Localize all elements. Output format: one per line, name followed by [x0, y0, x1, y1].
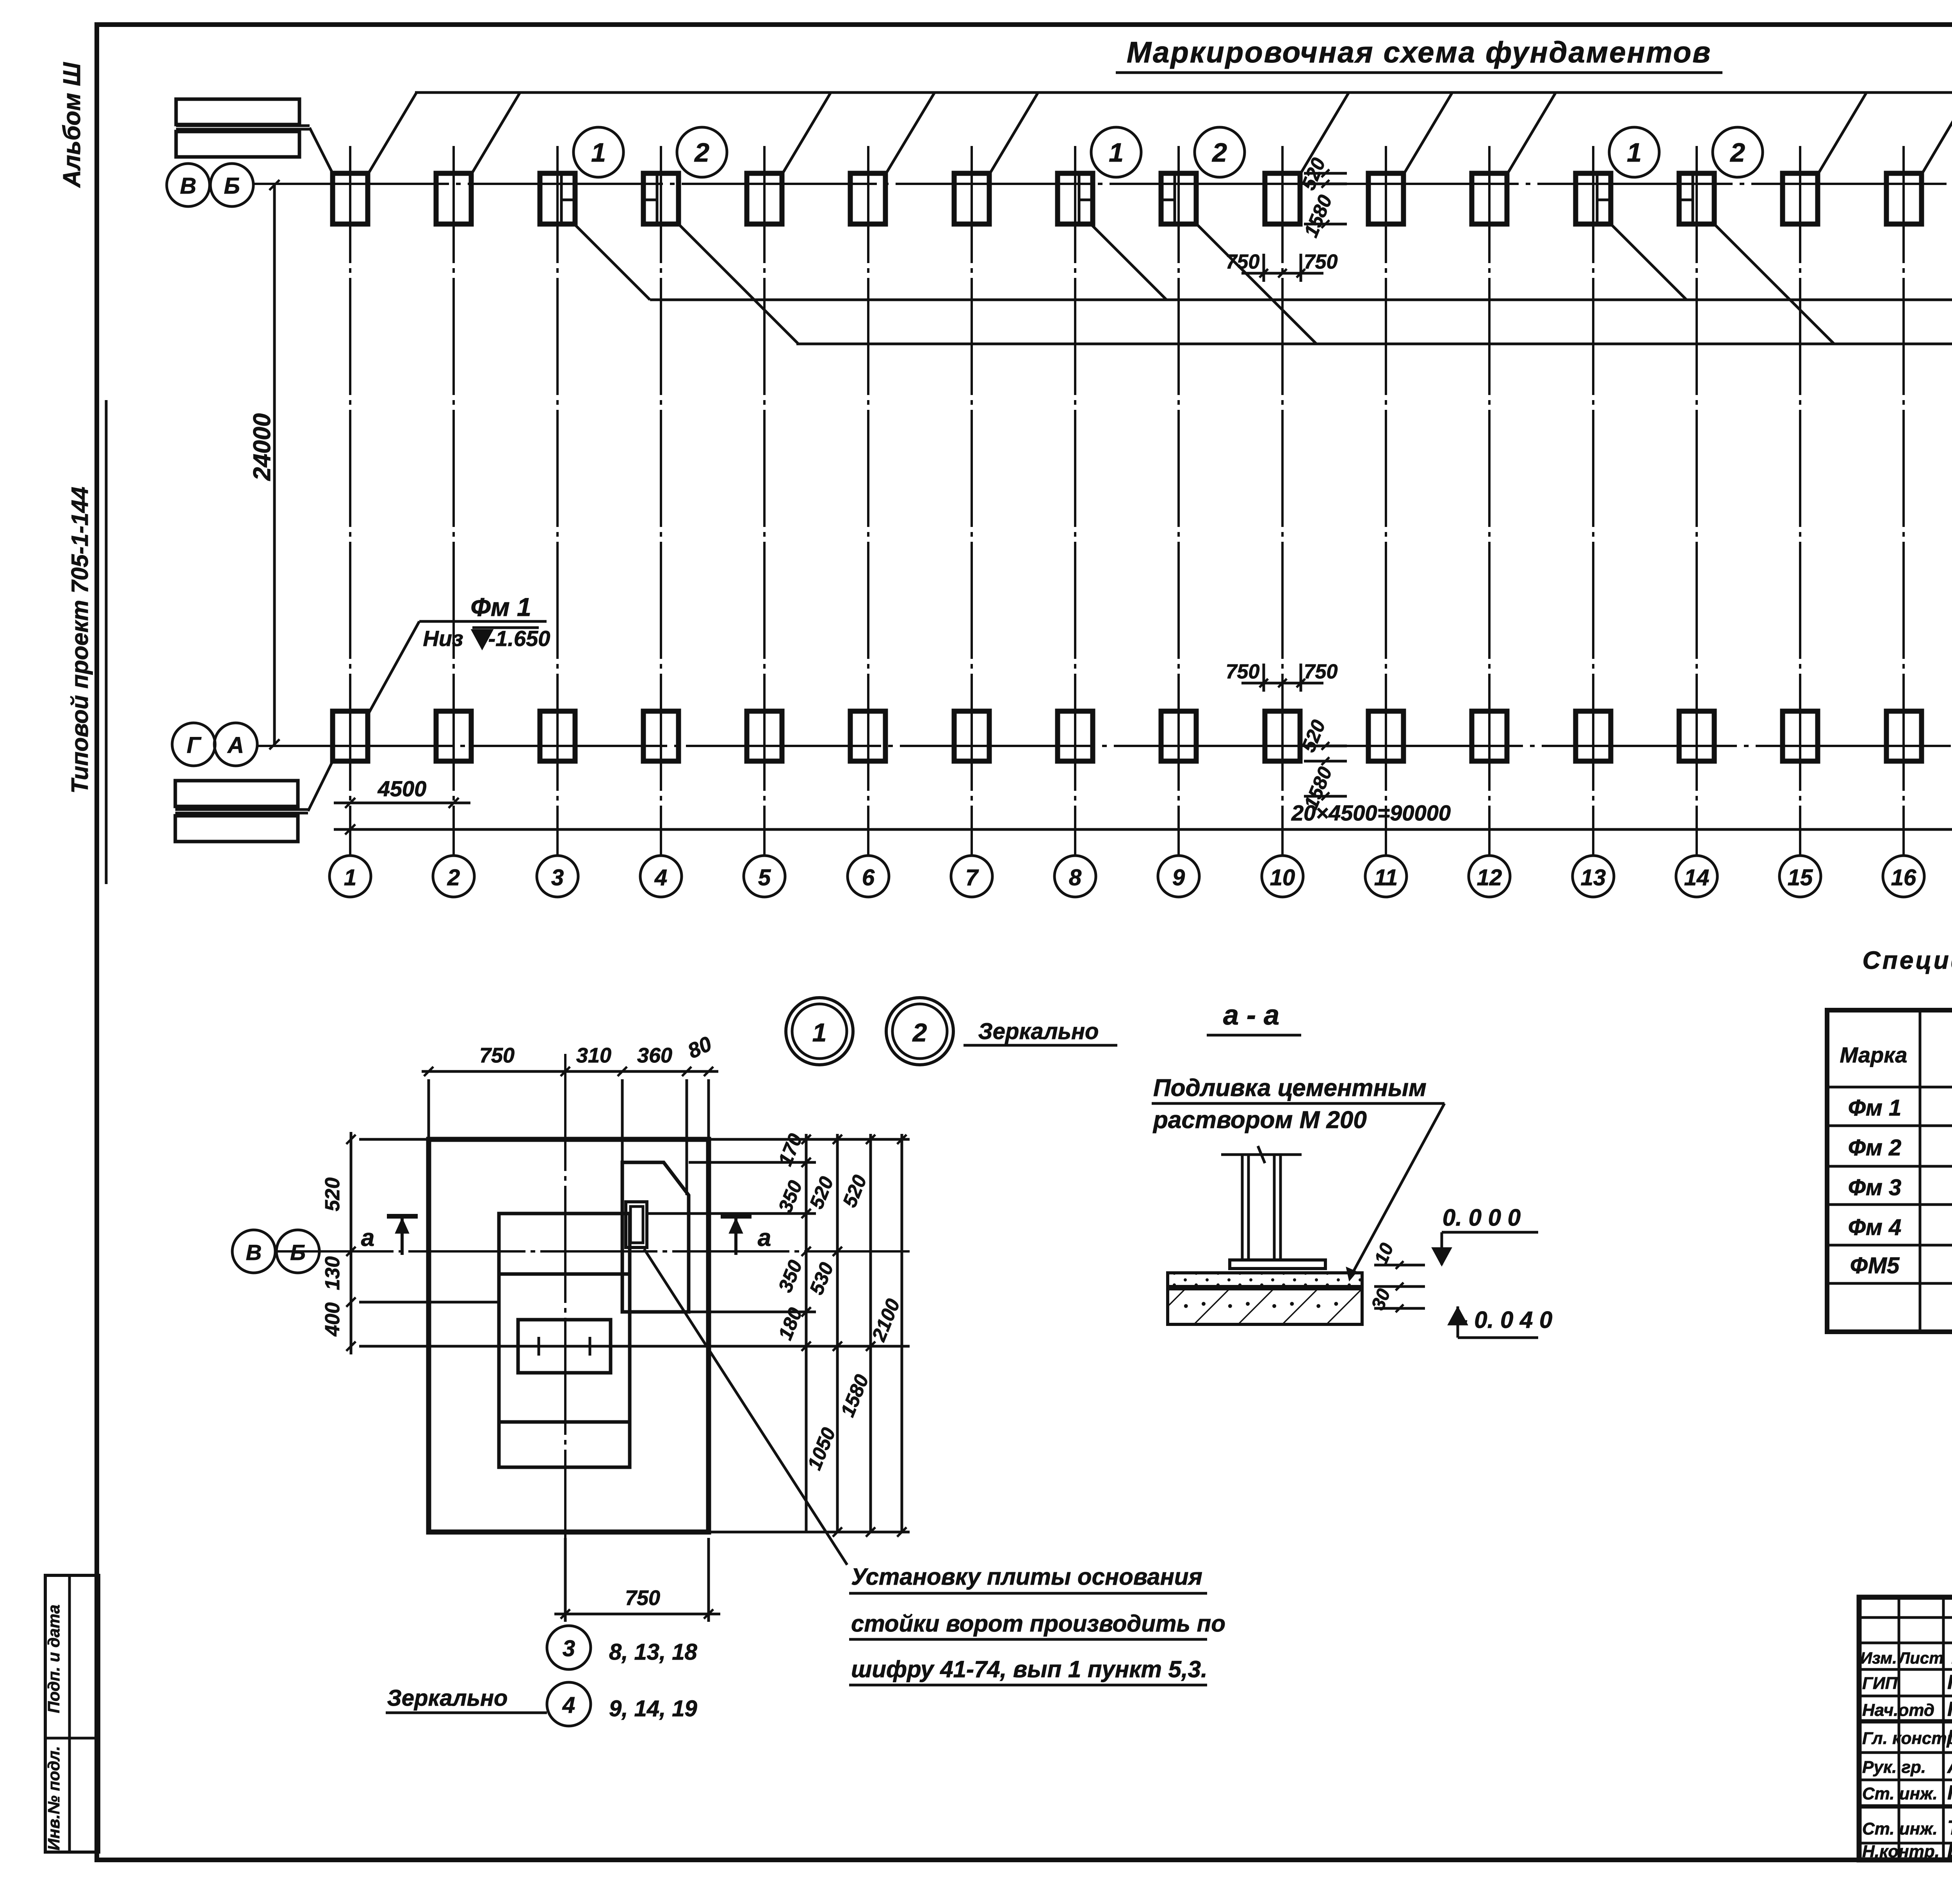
foundation Фм square, axis 11, row А/Г	[1368, 711, 1403, 761]
svg-text:2: 2	[912, 1018, 927, 1047]
svg-text:А: А	[227, 733, 244, 758]
svg-text:Нач.отд: Нач.отд	[1862, 1701, 1934, 1720]
svg-text:310: 310	[576, 1044, 611, 1067]
svg-text:1: 1	[812, 1018, 827, 1047]
column bubble 12	[1469, 856, 1510, 897]
leader line (top) collecting Фм 1 foundations	[415, 91, 1952, 94]
detail: vertical centerline	[564, 1054, 566, 1620]
svg-text:Инв.№ подл.: Инв.№ подл.	[45, 1746, 63, 1850]
svg-text:Фм 1: Фм 1	[470, 593, 531, 621]
foundation Фм square, axis 15, row Б/В	[1783, 173, 1818, 224]
foundation Фм square, axis 7, row А/Г	[954, 711, 989, 761]
svg-text:520: 520	[321, 1178, 344, 1212]
leader from anchor to note text	[644, 1249, 847, 1565]
svg-text:3: 3	[563, 1636, 575, 1661]
svg-text:24000: 24000	[249, 413, 276, 481]
specification table column lines	[1919, 1010, 1922, 1332]
leader diagonal axis 4 to Фм 3 line	[679, 224, 798, 344]
column grid centerline axis 9	[1177, 146, 1180, 856]
column bubble 6	[848, 856, 889, 897]
svg-text:шифру 41-74, вып 1 пункт 5,3.: шифру 41-74, вып 1 пункт 5,3.	[851, 1656, 1208, 1682]
detail: glued column cross-section (corner-cut polygon)	[622, 1162, 689, 1312]
svg-text:Лист: Лист	[1897, 1649, 1943, 1667]
svg-text:1: 1	[591, 138, 606, 167]
svg-text:360: 360	[637, 1044, 672, 1067]
column grid centerline axis 2	[452, 146, 455, 856]
svg-text:13: 13	[1581, 865, 1606, 890]
foundation Фм square, axis 5, row А/Г	[747, 711, 782, 761]
axis bubble В	[167, 164, 210, 206]
foundation Фм square, axis 7, row Б/В	[954, 173, 989, 224]
svg-text:1: 1	[1627, 138, 1642, 167]
title block horizontal lines	[1859, 1616, 1952, 1619]
dimension line 24000 between axes Б and А	[273, 185, 276, 744]
svg-text:Есина: Есина	[1947, 1839, 1952, 1862]
dimension line 20x4500=90000	[334, 828, 1952, 831]
axis bubble А	[214, 723, 257, 766]
column grid centerline axis 6	[867, 146, 869, 856]
svg-text:1: 1	[1109, 138, 1124, 167]
svg-text:8: 8	[1069, 865, 1082, 890]
svg-text:Марка: Марка	[1840, 1043, 1907, 1067]
svg-text:750: 750	[1304, 660, 1338, 683]
column grid centerline axis 4	[660, 146, 662, 856]
svg-text:6: 6	[862, 865, 875, 890]
svg-text:- 0. 0 4 0: - 0. 0 4 0	[1460, 1307, 1553, 1333]
svg-text:Гл. констр.: Гл. констр.	[1862, 1729, 1952, 1748]
svg-text:5: 5	[758, 865, 771, 890]
detail mark bubble 1	[1091, 127, 1141, 177]
foundation Фм square, axis 15, row А/Г	[1783, 711, 1818, 761]
svg-text:Подливка цементным: Подливка цементным	[1153, 1075, 1427, 1101]
column bubble 2	[433, 856, 474, 897]
svg-text:Катков: Катков	[1947, 1698, 1952, 1721]
column grid centerline axis 8	[1074, 146, 1076, 856]
svg-text:В: В	[180, 173, 196, 199]
foundation Фм square, axis 5, row Б/В	[747, 173, 782, 224]
detail: right dimension line 520/1580	[869, 1134, 872, 1532]
leader from rails to foundation axis 1 (bottom)	[308, 761, 333, 811]
svg-text:2: 2	[447, 865, 460, 890]
axis bubble Г	[172, 723, 215, 766]
leader diagonal axis 5 to Фм 1 line	[782, 93, 831, 174]
dimension 10/30 at slab edge	[1374, 1264, 1425, 1267]
foundation Фм square, axis 8, row Б/В	[1058, 173, 1093, 224]
leader diagonal to axis 1 bottom square	[369, 621, 419, 713]
svg-text:11: 11	[1374, 865, 1398, 890]
detail: foundation plate outer outline	[429, 1139, 709, 1532]
svg-text:750: 750	[1226, 251, 1260, 273]
detail: bottom dimension 750	[564, 1538, 567, 1622]
foundation Фм square, axis 8, row А/Г	[1058, 711, 1093, 761]
svg-text:4: 4	[562, 1692, 575, 1718]
detail mark bubble 1	[573, 127, 623, 177]
column bubble 16	[1883, 856, 1924, 897]
axis line А/Г (bottom row) horizontal centerline	[258, 745, 1952, 747]
svg-text:750: 750	[625, 1586, 660, 1610]
detail mark bubble 1 (double circle)	[786, 998, 853, 1065]
column bubble 1	[329, 856, 371, 897]
svg-text:Б: Б	[224, 173, 240, 199]
column bubble 5	[744, 856, 785, 897]
svg-text:Рук. гр.: Рук. гр.	[1862, 1758, 1926, 1777]
foundation Фм square, axis 4, row Б/В	[643, 173, 679, 224]
detail: gate post anchor small rectangle	[626, 1202, 647, 1247]
dimension line 4500 between axes 1-2	[334, 802, 470, 804]
leader diagonal axis 6 to Фм 1 line	[885, 93, 935, 174]
svg-text:Маркировочная схема фундамен: Маркировочная схема фундаментов	[1127, 36, 1712, 69]
svg-text:8, 13, 18: 8, 13, 18	[609, 1639, 697, 1665]
column grid centerline axis 14	[1696, 146, 1698, 856]
leader diagonal axis 14 to Фм 3 line	[1714, 224, 1834, 344]
leader diagonal axis 12 to Фм 1 line	[1507, 93, 1556, 174]
column bubble 7	[951, 856, 992, 897]
svg-text:Низ: Низ	[423, 626, 463, 651]
svg-text:Изм.: Изм.	[1860, 1649, 1897, 1667]
svg-text:Альбом Ш: Альбом Ш	[59, 62, 85, 189]
leader from note to grout layer	[1352, 1103, 1444, 1275]
foundation Фм square, axis 16, row А/Г	[1886, 711, 1922, 761]
svg-text:7: 7	[965, 865, 979, 890]
detail: inner plinth outline	[499, 1214, 630, 1467]
column grid centerline axis 16	[1902, 146, 1905, 856]
leader from rails to foundation axis 1 (top)	[310, 128, 333, 173]
column grid centerline axis 12	[1488, 146, 1491, 856]
svg-text:В: В	[246, 1240, 262, 1265]
section: grout layer (dotted)	[1168, 1273, 1362, 1287]
dimension 750+750 at axis 10 bottom row	[1263, 664, 1265, 692]
detail: right dimension witness lines	[709, 1138, 910, 1141]
svg-text:Подп. и дата: Подп. и дата	[45, 1605, 63, 1713]
section: base plate	[1230, 1260, 1325, 1269]
svg-text:0. 0 0 0: 0. 0 0 0	[1443, 1205, 1521, 1231]
svg-text:750: 750	[1226, 660, 1260, 683]
specification table frame	[1827, 1010, 1952, 1332]
detail: axis bubble Б	[276, 1230, 319, 1273]
svg-text:10: 10	[1270, 865, 1295, 890]
svg-text:Б: Б	[290, 1240, 306, 1265]
detail mark bubble 1	[1609, 127, 1659, 177]
foundation Фм square, axis 13, row А/Г	[1576, 711, 1611, 761]
foundation Фм square, axis 12, row Б/В	[1472, 173, 1507, 224]
leader diagonal axis 7 to Фм 1 line	[989, 93, 1038, 174]
foundation Фм square, axis 14, row А/Г	[1679, 711, 1714, 761]
svg-text:Гоголев: Гоголев	[1947, 1671, 1952, 1694]
svg-text:а: а	[361, 1224, 374, 1251]
bubble 3 with axes list 8,13,18	[547, 1626, 591, 1669]
axis bubble Б	[210, 164, 253, 206]
svg-text:12: 12	[1477, 865, 1502, 890]
svg-text:ФМ5: ФМ5	[1850, 1253, 1900, 1278]
detail mark bubble 2	[1713, 127, 1763, 177]
svg-text:9: 9	[1172, 865, 1185, 890]
column bubble 9	[1158, 856, 1199, 897]
svg-text:Фм 3: Фм 3	[1848, 1175, 1902, 1200]
svg-text:раствором М 200: раствором М 200	[1152, 1107, 1367, 1134]
svg-text:Аникин: Аникин	[1947, 1755, 1952, 1778]
svg-text:Ст. инж.: Ст. инж.	[1862, 1819, 1938, 1838]
svg-text:1: 1	[344, 865, 356, 890]
foundation Фм square, axis 16, row Б/В	[1886, 173, 1922, 224]
railway track symbol bottom-left	[175, 781, 298, 806]
foundation Фм square, axis 11, row Б/В	[1368, 173, 1403, 224]
column bubble 11	[1365, 856, 1407, 897]
svg-text:15: 15	[1788, 865, 1813, 890]
svg-text:2: 2	[694, 138, 709, 167]
column bubble 13	[1573, 856, 1614, 897]
svg-text:750: 750	[1304, 251, 1338, 273]
svg-text:9, 14, 19: 9, 14, 19	[609, 1696, 697, 1721]
leader diagonal axis 9 to Фм 3 line	[1197, 224, 1316, 344]
detail mark bubble 2	[677, 127, 727, 177]
foundation Фм square, axis 2, row Б/В	[436, 173, 471, 224]
svg-text:Фм 2: Фм 2	[1848, 1135, 1902, 1160]
section: concrete slab (hatched)	[1168, 1289, 1362, 1324]
column grid centerline axis 7	[971, 146, 973, 856]
svg-text:750: 750	[479, 1044, 515, 1067]
svg-text:Зеркально: Зеркально	[387, 1685, 508, 1711]
svg-text:Ст. инж.: Ст. инж.	[1862, 1784, 1938, 1803]
detail: top dimension line 750/310/360/80	[422, 1070, 718, 1073]
column grid centerline axis 5	[763, 146, 766, 856]
dimension 750+750 at axis 10 top row	[1263, 254, 1265, 282]
leader diagonal axis 8 to Фм 2 line	[1091, 224, 1167, 300]
detail mark bubble 2 (double circle)	[886, 998, 953, 1065]
foundation Фм square, axis 1, row Б/В	[333, 173, 368, 224]
column grid centerline axis 13	[1592, 146, 1594, 856]
foundation Фм square, axis 13, row Б/В	[1576, 173, 1611, 224]
foundation Фм square, axis 4, row А/Г	[643, 711, 679, 761]
foundation Фм square, axis 9, row А/Г	[1161, 711, 1196, 761]
svg-text:Толмачева: Толмачева	[1947, 1817, 1952, 1839]
section: break mark at post top	[1221, 1153, 1302, 1156]
specification table row lines	[1827, 1086, 1952, 1089]
column grid centerline axis 1	[349, 146, 351, 856]
railway track symbol top-left	[176, 99, 299, 125]
column grid centerline axis 15	[1799, 146, 1801, 856]
svg-text:а: а	[758, 1224, 771, 1251]
dimension 520/1580 at axis 10 top row (rotated)	[1304, 172, 1347, 175]
svg-text:а - а: а - а	[1223, 1000, 1279, 1031]
svg-text:2: 2	[1729, 138, 1745, 167]
svg-text:130: 130	[321, 1256, 344, 1290]
section: timber post (double lines)	[1241, 1155, 1244, 1261]
column grid centerline axis 10	[1281, 146, 1284, 856]
detail: horizontal centerline axis Б	[276, 1250, 910, 1253]
foundation Фм square, axis 6, row Б/В	[850, 173, 885, 224]
leader diagonal axis 16 to Фм 1 line	[1922, 93, 1952, 174]
detail mark bubble 2	[1195, 127, 1245, 177]
svg-text:Зеркально: Зеркально	[978, 1019, 1099, 1044]
svg-text:стойки ворот производить по: стойки ворот производить по	[851, 1610, 1225, 1637]
foundation Фм square, axis 12, row А/Г	[1472, 711, 1507, 761]
column bubble 14	[1676, 856, 1717, 897]
foundation Фм square, axis 10, row Б/В	[1265, 173, 1300, 224]
leader diagonal axis 3 to Фм 2 line	[574, 224, 650, 300]
foundation Фм square, axis 1, row А/Г	[333, 711, 368, 761]
svg-text:Установку плиты основания: Установку плиты основания	[851, 1564, 1202, 1590]
svg-text:Г: Г	[187, 733, 201, 758]
foundation Фм square, axis 3, row Б/В	[540, 173, 575, 224]
svg-text:Фм 4: Фм 4	[1848, 1215, 1902, 1240]
leader line Фм 2	[650, 299, 1952, 301]
foundation Фм square, axis 9, row Б/В	[1161, 173, 1196, 224]
column grid centerline axis 11	[1385, 146, 1387, 856]
svg-text:14: 14	[1684, 865, 1710, 890]
svg-text:Н.контр.: Н.контр.	[1862, 1842, 1940, 1861]
leader diagonal axis 2 to Фм 1 line	[471, 93, 520, 174]
svg-text:16: 16	[1891, 865, 1916, 890]
foundation Фм square, axis 2, row А/Г	[436, 711, 471, 761]
axis line Б/В (top row) horizontal centerline	[254, 183, 1952, 185]
detail: right dimension line 520/530/1050	[836, 1134, 839, 1532]
svg-text:2: 2	[1211, 138, 1227, 167]
foundation Фм square, axis 6, row А/Г	[850, 711, 885, 761]
svg-text:-1.650: -1.650	[488, 626, 550, 651]
svg-text:3: 3	[551, 865, 564, 890]
foundation Фм square, axis 3, row А/Г	[540, 711, 575, 761]
title block frame	[1859, 1597, 1952, 1860]
leader diagonal axis 10 to Фм 1 line	[1300, 93, 1349, 174]
foundation Фм square, axis 14, row Б/В	[1679, 173, 1714, 224]
svg-text:4500: 4500	[378, 776, 427, 801]
leader line Фм 3	[796, 343, 1952, 345]
detail: right dimension lines 170/350/350/180	[805, 1134, 808, 1532]
column grid centerline axis 3	[556, 146, 559, 856]
svg-text:Киреев: Киреев	[1947, 1781, 1952, 1804]
svg-text:Морозова: Морозова	[1947, 1726, 1952, 1749]
dimension 520/1580 at axis 10 bottom row (rotated)	[1304, 745, 1347, 747]
foundation Фм square, axis 10, row А/Г	[1265, 711, 1300, 761]
detail: hidden edge dashed line	[565, 1213, 622, 1215]
title block vertical lines (left part)	[1898, 1597, 1900, 1860]
svg-text:Спецификация элементов к ма: Спецификация элементов к маркировочной с…	[1863, 946, 1952, 974]
detail: right dimension line 2100	[901, 1134, 903, 1532]
leader diagonal axis 11 to Фм 1 line	[1403, 93, 1452, 174]
column bubble 10	[1262, 856, 1303, 897]
leader diagonal axis 15 to Фм 1 line	[1818, 93, 1867, 174]
detail: anchor bolts plate	[518, 1320, 611, 1373]
column bubble 3	[537, 856, 578, 897]
column bubble 15	[1779, 856, 1821, 897]
detail: left dimension line 520/130/400	[350, 1132, 353, 1354]
leader diagonal axis 13 to Фм 2 line	[1611, 224, 1687, 300]
detail: axis bubble В	[232, 1230, 275, 1273]
svg-text:Типовой проект 705-1-144: Типовой проект 705-1-144	[67, 487, 93, 794]
svg-text:400: 400	[321, 1303, 344, 1337]
svg-text:4: 4	[654, 865, 667, 890]
svg-text:ГИП: ГИП	[1862, 1674, 1898, 1693]
left margin stamp boxes: Подп. и дата / Инв.№ подл.	[45, 1575, 99, 1852]
column bubble 8	[1054, 856, 1096, 897]
column bubble 4	[640, 856, 682, 897]
leader diagonal axis 1 to Фм 1 line	[368, 93, 417, 174]
svg-text:Фм 1: Фм 1	[1848, 1095, 1902, 1121]
